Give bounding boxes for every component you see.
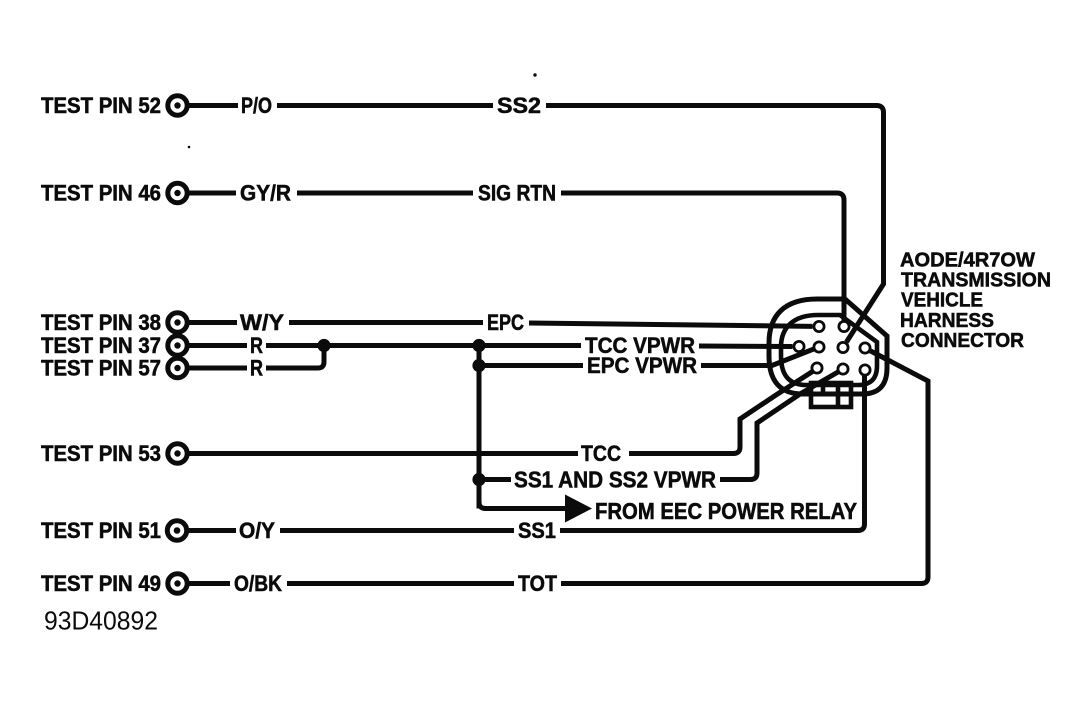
svg-text:TEST PIN 57: TEST PIN 57: [41, 356, 161, 381]
svg-text:TEST PIN 37: TEST PIN 37: [41, 333, 161, 358]
svg-text:W/Y: W/Y: [240, 310, 284, 335]
svg-text:SIG RTN: SIG RTN: [478, 181, 556, 206]
svg-text:TOT: TOT: [518, 571, 558, 596]
svg-text:P/O: P/O: [241, 93, 272, 118]
svg-text:SS1 AND SS2 VPWR: SS1 AND SS2 VPWR: [514, 467, 716, 493]
svg-text:FROM EEC POWER RELAY: FROM EEC POWER RELAY: [595, 498, 857, 524]
svg-text:GY/R: GY/R: [240, 181, 291, 206]
svg-text:CONNECTOR: CONNECTOR: [901, 330, 1025, 352]
svg-text:O/BK: O/BK: [234, 571, 282, 596]
svg-text:EPC: EPC: [487, 310, 524, 335]
svg-text:O/Y: O/Y: [239, 518, 275, 543]
svg-text:TEST PIN 49: TEST PIN 49: [41, 571, 161, 596]
svg-text:93D40892: 93D40892: [44, 606, 158, 636]
svg-text:VEHICLE: VEHICLE: [901, 290, 983, 312]
svg-text:EPC VPWR: EPC VPWR: [587, 353, 697, 378]
svg-text:TEST PIN 38: TEST PIN 38: [41, 310, 161, 335]
svg-text:R: R: [250, 333, 263, 358]
svg-text:SS1: SS1: [518, 518, 556, 543]
svg-text:R: R: [250, 356, 263, 381]
svg-text:TEST PIN 51: TEST PIN 51: [41, 518, 161, 543]
svg-text:AODE/4R7OW: AODE/4R7OW: [900, 250, 1035, 272]
svg-text:HARNESS: HARNESS: [900, 310, 994, 332]
svg-text:TEST PIN 46: TEST PIN 46: [41, 181, 161, 206]
svg-text:TCC: TCC: [581, 441, 621, 466]
svg-text:SS2: SS2: [497, 93, 541, 118]
svg-text:TEST PIN 52: TEST PIN 52: [41, 93, 161, 118]
svg-text:TRANSMISSION: TRANSMISSION: [901, 270, 1051, 292]
svg-text:TEST PIN 53: TEST PIN 53: [41, 441, 161, 466]
